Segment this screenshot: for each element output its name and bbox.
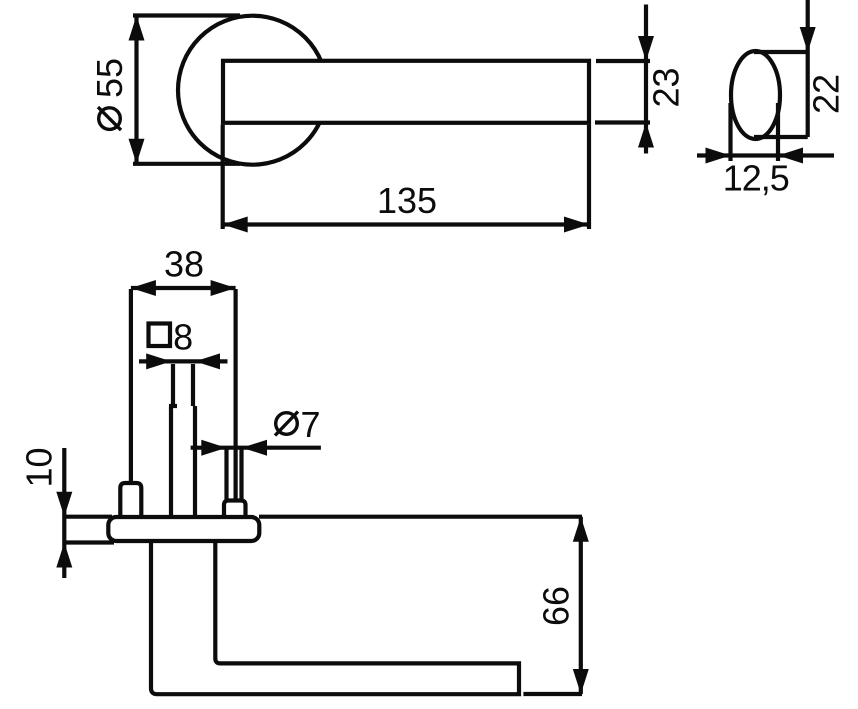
dim 10 line [62,448,66,578]
dim 12,5 ext line left [728,103,732,161]
dim Ø7 label [276,413,298,435]
square symbol [149,324,171,347]
rose plate [108,517,259,541]
fixing lug [120,483,141,517]
rose circle Ø55 [178,16,327,165]
dim Ø7 line [191,446,321,450]
dim 66 ext line bottom [523,692,582,696]
spindle lower rod left [169,406,173,517]
grip ellipse [731,51,780,139]
dim 22 label [806,74,847,114]
svg-text:7: 7 [300,404,320,445]
spindle upper rod left [171,364,175,406]
svg-text:22: 22 [806,74,847,114]
grip bottom line [754,135,808,139]
spindle upper rod right [191,364,195,406]
spindle step tick [169,404,177,408]
screw head [224,501,246,518]
svg-text:23: 23 [646,67,687,107]
dim 23 line [644,5,648,154]
dim 10 label [19,447,60,487]
dim 66 label [535,586,576,626]
dim 135 arrow left [223,217,248,233]
dim Ø7 arrow left [242,440,267,456]
svg-text:135: 135 [377,180,437,221]
dim Ø55 arrow up [129,16,145,41]
dim 38 arrow left [131,280,156,296]
dim 135 line [223,222,589,226]
dim 8 arrow right [146,353,171,369]
dim 135 ext line left [221,125,225,229]
lever bar (white fill over circle) [223,61,589,123]
dim 12,5 arrow left [778,148,803,164]
screw shaft right [239,448,243,500]
dim 22 line [806,0,810,52]
dim 10 arrow down [56,492,72,517]
grip top line [754,50,808,54]
dim 23 ext line bottom [595,120,650,124]
dim 12,5 line [697,153,834,157]
svg-text:10: 10 [19,447,60,487]
dim 135 arrow right [564,217,589,233]
svg-text:55: 55 [89,58,130,98]
svg-text:38: 38 [164,244,204,285]
dim 8 arrow left [195,353,220,369]
screw shaft left [224,448,228,500]
dim 66 arrow down [573,669,589,694]
dim 66 arrow up [573,517,589,542]
dim Ø55 label [89,58,130,130]
dim 38 arrow right [211,280,236,296]
dim 23 arrow down [638,36,654,61]
dim Ø55 arrow down [129,139,145,164]
dim 10 arrow up [56,543,72,568]
dim 8 line [139,359,228,363]
dim 22 arrow down [800,27,816,52]
dim 23 arrow up [638,123,654,148]
dim 38 line [131,286,236,290]
svg-text:8: 8 [173,317,193,358]
dim Ø7 arrow right [201,440,226,456]
svg-text:66: 66 [535,586,576,626]
door line right [259,515,582,519]
dim Ø55 ext line bottom [133,162,240,166]
spindle lower rod right [193,406,197,517]
dim 38 ext line right [234,289,238,500]
dim 23 label [646,67,687,107]
dim 12,5 arrow right [706,148,731,164]
svg-text:12,5: 12,5 [723,158,789,199]
door line left bottom [64,540,114,544]
dim 66 line [579,517,583,694]
dim Ø55 line [134,16,138,164]
dim 135 ext line right [587,125,591,229]
dim 12,5 ext line right [776,103,780,161]
grip right edge [806,52,810,137]
dim 23 ext line top [596,59,650,63]
dim 38 ext line left [129,289,133,481]
lever neck and bar profile [151,540,519,694]
door line left top [64,515,112,519]
dim Ø55 ext line top [133,13,240,17]
